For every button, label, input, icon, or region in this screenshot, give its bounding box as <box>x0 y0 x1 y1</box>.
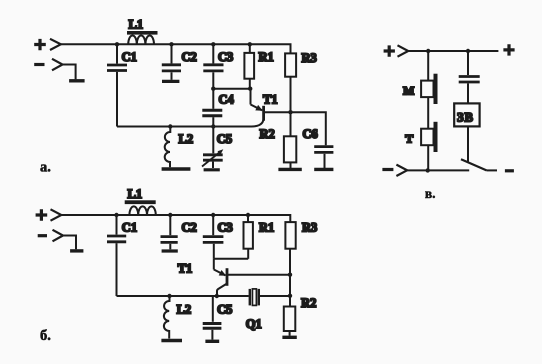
capacitor C4 (circuit a) <box>202 110 222 116</box>
capacitor C3 (circuit b) <box>203 237 224 243</box>
resistor R2 (circuit a) <box>284 136 296 162</box>
node R1 top (circuit b) <box>246 213 250 217</box>
wire C2 top (circuit b) <box>169 215 171 235</box>
wire C1 bottom to lower rail (circuit b) <box>116 243 118 296</box>
transistor T1 emitter with arrow (circuit b) <box>214 270 226 276</box>
quartz Q1 body (circuit b) <box>252 289 256 306</box>
transistor T1 collector (circuit a) <box>252 119 264 127</box>
wire C5 bottom stub (circuit a) <box>212 162 214 168</box>
node C1 top (circuit b) <box>114 213 118 217</box>
plus terminal label left (circuit v) <box>384 45 395 56</box>
node C4 top junction (circuit a) <box>211 87 215 91</box>
wire emitter vertical (circuit b) <box>213 259 215 270</box>
wire R2 top stub (circuit b) <box>289 296 291 307</box>
node R2 top junction (circuit b) <box>288 294 292 298</box>
svg-text:C4: C4 <box>219 93 235 107</box>
wire minus to ground (circuit b) <box>63 236 76 250</box>
capacitor C2 (circuit a) <box>162 65 181 71</box>
wire C3/R1 to emitter (circuit a) <box>213 89 250 105</box>
svg-text:L2: L2 <box>179 132 194 146</box>
wire C3 bottom (circuit a) <box>212 72 214 88</box>
ground under R2 (circuit b) <box>282 336 296 339</box>
transistor T1 emitter with arrow (circuit a) <box>251 105 263 111</box>
wire R1 top stub (circuit a) <box>249 44 251 53</box>
wire T to bottom rail (circuit v) <box>427 145 429 170</box>
wire M to T (circuit v) <box>427 97 429 129</box>
wire R1 top stub (circuit b) <box>247 215 249 222</box>
svg-text:C6: C6 <box>303 127 318 141</box>
node C3 top (circuit a) <box>211 42 215 46</box>
svg-text:T1: T1 <box>263 93 278 107</box>
svg-text:C1: C1 <box>122 221 137 235</box>
svg-text:R2: R2 <box>260 127 275 141</box>
wire C3 bottom to emitter corner (circuit b) <box>213 244 215 259</box>
switch lever (circuit v) <box>461 159 487 170</box>
earphone T membrane bar (circuit v) <box>434 122 438 152</box>
ground at minus input (circuit b) <box>70 249 83 252</box>
plus terminal label (circuit a) <box>34 39 46 50</box>
capacitor C6 (circuit a) <box>314 147 333 153</box>
wire R2 bottom stub (circuit b) <box>289 331 291 336</box>
capacitor C5 trimmer arrow (circuit a) <box>202 152 221 167</box>
node R3 bottom / base junction (circuit a) <box>288 110 292 114</box>
ground under C2 (circuit b) <box>162 249 178 252</box>
ground at minus input (circuit a) <box>69 79 85 82</box>
node emitter junction (circuit a) <box>248 87 252 91</box>
svg-text:R1: R1 <box>259 221 274 235</box>
wire capacitor branch top (circuit v) <box>467 51 469 75</box>
quartz Q1 right plate (circuit b) <box>258 289 260 306</box>
node C5 top (circuit a) <box>211 124 215 128</box>
ground under L2 (circuit b) <box>161 339 182 342</box>
resistor R1 (circuit a) <box>244 53 254 79</box>
wire emitter horizontal (circuit b) <box>214 258 248 260</box>
node C1 top (circuit a) <box>115 42 119 46</box>
svg-text:а.: а. <box>40 160 51 176</box>
resistor R2 (circuit b) <box>284 307 296 332</box>
svg-text:C5: C5 <box>217 132 232 146</box>
wire top rail (circuit v) <box>408 50 498 52</box>
svg-text:L2: L2 <box>177 303 192 317</box>
resistor R1 (circuit b) <box>244 222 253 249</box>
microphone M membrane bar (circuit v) <box>434 74 438 104</box>
plus input connector (circuit a) <box>50 39 61 50</box>
capacitor C5 trimmer (circuit a) <box>203 155 223 160</box>
inductor L1 core bar (circuit a) <box>127 31 158 35</box>
wire C5 bottom stub (circuit b) <box>211 330 213 340</box>
wire C5 top (circuit a) <box>212 127 214 154</box>
svg-text:R2: R2 <box>301 296 316 310</box>
wire minus to ground (circuit a) <box>63 65 76 80</box>
wire C2 bottom (circuit b) <box>169 244 171 250</box>
svg-text:в.: в. <box>425 186 436 201</box>
capacitor C2 (circuit b) <box>161 237 178 243</box>
svg-text:C3: C3 <box>218 50 233 64</box>
transistor T1 collector (circuit b) <box>217 284 227 297</box>
inductor L1 core bar (circuit b) <box>125 200 156 204</box>
wire R1 bottom stub to emitter wire (circuit b) <box>247 249 249 259</box>
plus terminal label right (circuit v) <box>503 44 514 55</box>
wire lower rail (circuit b) <box>117 295 249 297</box>
ground under R2 (circuit a) <box>278 168 301 171</box>
svg-text:C2: C2 <box>182 221 197 235</box>
inductor L1 coil (circuit a) <box>128 35 154 44</box>
node collector on rail (circuit b) <box>215 294 219 298</box>
microphone M body (circuit v) <box>421 81 433 98</box>
node C2 top (circuit b) <box>168 213 172 217</box>
node L2 top (circuit a) <box>168 124 172 128</box>
svg-text:М: М <box>403 84 414 98</box>
wire C4 bottom to rail (circuit a) <box>212 117 214 126</box>
node base / R3 junction (circuit b) <box>288 273 292 277</box>
svg-text:R3: R3 <box>302 221 317 235</box>
earphone T body (circuit v) <box>421 129 433 146</box>
node capacitor branch top (circuit v) <box>466 49 470 53</box>
capacitor C1 (circuit a) <box>107 65 127 71</box>
wire R2 bottom stub (circuit a) <box>290 162 292 168</box>
svg-text:б.: б. <box>40 328 51 344</box>
svg-text:L1: L1 <box>128 187 143 201</box>
quartz Q1 left plate (circuit b) <box>249 289 251 306</box>
svg-text:ЗВ: ЗВ <box>457 110 474 124</box>
resistor R3 (circuit b) <box>285 222 295 249</box>
minus input connector (circuit a) <box>52 59 63 71</box>
minus terminal label left (circuit v) <box>382 168 393 171</box>
wire C3 top (circuit a) <box>212 44 214 63</box>
wire R2 top stub (circuit a) <box>290 112 292 136</box>
wire C1 top (circuit a) <box>116 44 118 63</box>
wire top rail (circuit b) <box>61 215 290 222</box>
node R1 top (circuit a) <box>248 42 252 46</box>
transistor T1 base bar (circuit a) <box>262 106 265 121</box>
wire C6 bottom stub (circuit a) <box>324 154 326 168</box>
svg-text:R1: R1 <box>259 50 274 64</box>
svg-text:C2: C2 <box>182 50 197 64</box>
minus terminal label (circuit a) <box>34 63 44 66</box>
wire R1 bottom stub (circuit a) <box>249 79 251 89</box>
wire C2 bottom (circuit a) <box>171 72 173 80</box>
wire battery to switch (circuit v) <box>467 126 469 161</box>
svg-text:C5: C5 <box>217 303 232 317</box>
plus input connector (circuit v) <box>398 45 409 56</box>
ground under C5 (circuit a) <box>204 168 220 171</box>
transistor T1 base lead (circuit b) <box>228 274 290 276</box>
resistor R3 (circuit a) <box>285 53 296 76</box>
node C3 top (circuit b) <box>211 213 215 217</box>
wire C5 top (circuit b) <box>212 296 214 322</box>
wire top rail (circuit a) <box>61 44 291 53</box>
wire C1 bottom to lower rail (circuit a) <box>116 72 118 127</box>
wire C1 top (circuit b) <box>116 215 118 235</box>
wire bottom rail (circuit v) <box>407 169 469 171</box>
capacitor C5 (circuit b) <box>203 324 222 329</box>
svg-text:T1: T1 <box>178 262 193 276</box>
wire C4 top (circuit a) <box>212 89 214 109</box>
svg-text:C3: C3 <box>218 221 233 235</box>
inductor L1 coil (circuit b) <box>129 206 155 215</box>
svg-text:Т: Т <box>405 132 413 146</box>
wire R3 bottom (circuit a) <box>290 77 292 113</box>
transistor T1 base lead (circuit a) <box>265 111 291 113</box>
svg-text:C1: C1 <box>122 50 137 64</box>
wire switch to minus (circuit v) <box>487 169 498 171</box>
minus terminal label right (circuit v) <box>505 169 514 172</box>
ground under L2 (circuit a) <box>162 167 191 170</box>
ground under C2 (circuit a) <box>162 80 179 83</box>
wire to microphone M (circuit v) <box>427 51 429 81</box>
plus terminal label (circuit b) <box>36 209 48 220</box>
node L2 top (circuit b) <box>167 294 171 298</box>
capacitor (circuit v) <box>459 77 480 83</box>
svg-text:L1: L1 <box>129 18 144 32</box>
wire capacitor to battery (circuit v) <box>467 83 469 103</box>
node C2 top (circuit a) <box>169 42 173 46</box>
wire Q1 right to R2 (circuit b) <box>260 295 290 297</box>
ground under C5 (circuit b) <box>205 340 219 343</box>
node microphone branch top (circuit v) <box>426 49 430 53</box>
wire base junction to C6 (circuit a) <box>291 112 326 145</box>
wire C2 top (circuit a) <box>171 44 173 63</box>
wire C3 top (circuit b) <box>212 215 214 235</box>
node T bottom junction (circuit v) <box>426 168 430 172</box>
inductor L2 coil (circuit b) <box>164 296 170 339</box>
minus input connector (circuit v) <box>396 165 407 176</box>
svg-text:R3: R3 <box>302 51 317 65</box>
wire R3 bottom (circuit b) <box>289 249 291 296</box>
minus terminal label (circuit b) <box>38 234 47 237</box>
plus input connector (circuit b) <box>51 209 62 220</box>
battery 3V box (circuit v) <box>454 103 479 126</box>
minus input connector (circuit b) <box>53 230 64 242</box>
inductor L2 coil (circuit a) <box>165 127 171 168</box>
wire lower rail (circuit a) <box>117 126 252 128</box>
capacitor C1 (circuit b) <box>107 236 126 242</box>
ground under C6 (circuit a) <box>314 168 333 171</box>
transistor T1 base bar (circuit b) <box>226 268 229 286</box>
svg-text:Q1: Q1 <box>246 317 262 331</box>
capacitor C3 (circuit a) <box>203 65 223 71</box>
